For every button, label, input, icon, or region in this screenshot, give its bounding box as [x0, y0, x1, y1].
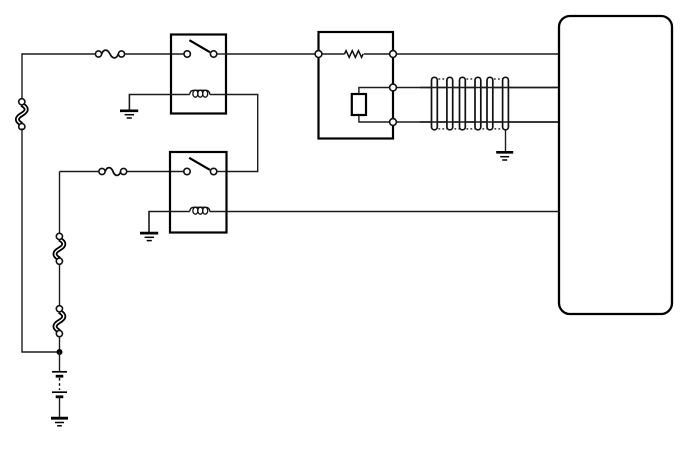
wire: top feed from left vertical to fuse F1	[22, 53, 96, 55]
relay K1 switch	[184, 40, 226, 57]
fusible link FL3	[55, 306, 64, 337]
relay K2 switch	[184, 158, 227, 175]
wire: suppressor bottom output to ECU	[393, 121, 559, 123]
wire: left vertical feed 1 lower segment	[22, 128, 60, 352]
wire: relay K1 coil right lead down to relay K2 switch output	[210, 95, 258, 172]
wire: left vertical feed 1 upper segment	[21, 54, 24, 99]
wire: capacitor bottom lead	[359, 115, 393, 122]
fusible link FL1	[17, 99, 26, 130]
node A: suppressor left terminal	[315, 51, 322, 58]
wire: fuse F2 to relay K2	[127, 171, 184, 173]
junction J1	[57, 349, 63, 355]
wire: relay K2 coil left lead to ground	[149, 212, 190, 233]
wire: shield drain to ground	[505, 130, 507, 152]
ground G2 (relay K2 coil)	[140, 233, 158, 241]
wire: relay K1 coil left lead to ground	[129, 95, 189, 111]
wire: battery negative to ground	[59, 397, 61, 418]
ground G3 (cable shield)	[496, 152, 513, 160]
relay K1 box	[171, 35, 226, 114]
resistor R1	[345, 51, 364, 58]
relay K2 coil	[190, 207, 210, 214]
shielded cable winding	[420, 77, 559, 130]
wire: suppressor middle output to ECU	[393, 87, 559, 89]
battery BAT	[52, 372, 67, 397]
noise suppressor box	[319, 32, 394, 139]
wire: left vertical feed 2 middle segment	[59, 264, 61, 305]
node D: suppressor right bottom terminal	[390, 119, 397, 126]
fusible link FL2	[55, 233, 64, 264]
ground G1 (relay K1 coil)	[120, 111, 138, 118]
wire: capacitor top lead	[359, 88, 393, 95]
wire: relay K2 coil output to ECU	[210, 211, 560, 213]
wire: second feed from left vertical 2 to fuse F2	[60, 171, 100, 173]
ground G4 (battery)	[51, 418, 68, 426]
wire: resistor to right node	[364, 53, 393, 55]
wire: junction to battery	[59, 352, 61, 371]
wire: fuse F1 to relay K1	[125, 53, 184, 55]
relay K2 box	[170, 152, 227, 233]
wire: suppressor top output to ECU	[393, 53, 559, 55]
wire: suppressor internal top rail	[319, 53, 345, 55]
node B: suppressor right top terminal	[390, 51, 397, 58]
capacitor block C1	[352, 94, 366, 115]
ECU box	[559, 16, 672, 314]
wire: left vertical feed 2 lower segment to junction	[59, 336, 61, 352]
node C: suppressor right middle terminal	[390, 84, 397, 91]
relay K1 coil	[190, 90, 210, 97]
fuse F2	[99, 168, 127, 176]
wire: relay K1 output to suppressor box	[226, 53, 319, 55]
fuse F1	[95, 50, 124, 58]
wire: left vertical feed 2 upper segment	[59, 172, 61, 234]
